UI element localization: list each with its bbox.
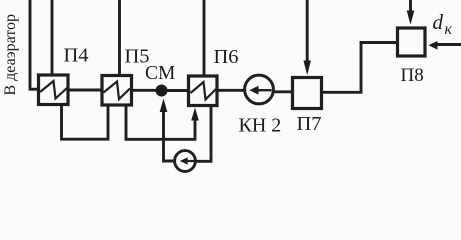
heater П5 xyxy=(102,76,132,106)
svg-text:П8: П8 xyxy=(401,65,424,86)
heater П6 xyxy=(189,76,218,106)
svg-text:П6: П6 xyxy=(214,46,239,68)
wire drain pump to СМ (up arrow into СМ) xyxy=(160,99,175,162)
svg-text:П4: П4 xyxy=(64,45,89,67)
heater П8 xyxy=(398,28,426,56)
heater П7 xyxy=(293,78,322,109)
svg-text:СМ: СМ xyxy=(145,63,175,84)
wire drain П6 down to drain pump xyxy=(197,106,212,162)
svg-text:В деаэратор: В деаэратор xyxy=(2,14,19,96)
svg-text:КН 2: КН 2 xyxy=(239,115,282,137)
wire КН2 to П7 xyxy=(274,90,293,93)
wire П7 to П8 (step up) xyxy=(323,43,398,93)
svg-text:dк: dк xyxy=(433,10,453,38)
node СМ xyxy=(156,85,168,97)
wire drain П4 to П5 xyxy=(62,105,109,140)
pump КН2 (condensate pump) xyxy=(245,75,274,104)
wire П6 to КН2 xyxy=(218,89,245,92)
heater П4 xyxy=(39,75,69,105)
wire steam extraction into П4 top xyxy=(51,0,54,74)
wire steam extraction into П5 top xyxy=(118,0,121,75)
wire steam arrow into П8 top xyxy=(407,0,415,25)
wire СМ to П6 xyxy=(167,89,188,92)
wire drain dк arrow into П8 right side xyxy=(429,41,461,50)
svg-text:П7: П7 xyxy=(297,113,322,135)
wire П4 to П5 xyxy=(69,89,102,92)
drain pump (circle with left arrow) xyxy=(175,151,196,172)
wire steam arrow into П7 top xyxy=(303,0,311,75)
wire to deaerator (left vertical, corner into П4) xyxy=(30,0,38,89)
wire П5 to СМ node xyxy=(132,89,156,92)
wire steam extraction into П6 top xyxy=(203,0,206,76)
wire drain П5 to П6 (with up arrow into П6) xyxy=(126,105,199,139)
